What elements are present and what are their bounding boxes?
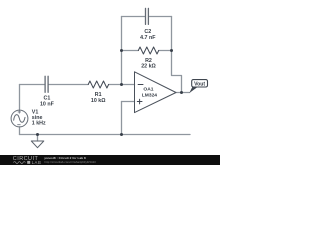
wire: [159, 50, 172, 52]
wire: [19, 85, 21, 111]
wire: [122, 16, 145, 18]
wire: [37, 135, 39, 142]
wire: [20, 134, 191, 136]
voltage source V1: [11, 110, 28, 127]
op-amp OA1 plus pin mark: [137, 99, 142, 104]
op-amp OA1: [135, 72, 177, 113]
node junction dot (R2 left): [120, 49, 123, 52]
node junction dot (output): [180, 91, 183, 94]
footer bar: [0, 155, 220, 165]
node junction dot (ground): [36, 133, 39, 136]
wire: [176, 92, 190, 94]
wire: [122, 50, 139, 52]
wire: [121, 17, 123, 85]
svg-text:LM324: LM324: [142, 93, 158, 99]
wire: [19, 127, 21, 135]
svg-text:LAB: LAB: [32, 160, 42, 165]
svg-text:10 nF: 10 nF: [40, 101, 55, 107]
svg-text:10 kΩ: 10 kΩ: [91, 98, 106, 104]
wire: [121, 102, 123, 135]
voltage source V1 sine mark: [14, 115, 25, 123]
svg-text:1 kHz: 1 kHz: [32, 120, 46, 126]
op-amp OA1 minus pin mark: [138, 84, 143, 86]
svg-text:Vout: Vout: [194, 81, 205, 87]
resistor R2: [138, 47, 158, 54]
node junction dot (plus rail / bottom rail): [120, 133, 123, 136]
node Vout flag: [189, 80, 207, 93]
svg-text:jonest8 : Circuit 2 for Lab 8: jonest8 : Circuit 2 for Lab 8: [44, 156, 87, 160]
voltage source V1 plus mark: [18, 111, 21, 114]
ground: [31, 141, 44, 148]
node junction dot (R2 right): [170, 49, 173, 52]
footer CircuitLab logo: [13, 156, 42, 165]
svg-text:4.7 nF: 4.7 nF: [140, 35, 156, 41]
wire: [20, 84, 45, 86]
voltage source V1 minus mark: [18, 124, 21, 126]
svg-text:22 kΩ: 22 kΩ: [141, 64, 156, 70]
wire: [122, 101, 135, 103]
wire: [49, 84, 88, 86]
resistor R1: [88, 81, 108, 88]
wire: [109, 84, 135, 86]
svg-text:http://circuitlab.com/c/rwha4p: http://circuitlab.com/c/rwha4p63y9/3423: [45, 160, 97, 164]
capacitor C1: [45, 76, 48, 92]
wire: [149, 16, 171, 18]
svg-text:OA1: OA1: [143, 87, 153, 93]
wire: [172, 17, 182, 93]
capacitor C2: [146, 8, 149, 24]
node junction dot (minus input): [120, 83, 123, 86]
